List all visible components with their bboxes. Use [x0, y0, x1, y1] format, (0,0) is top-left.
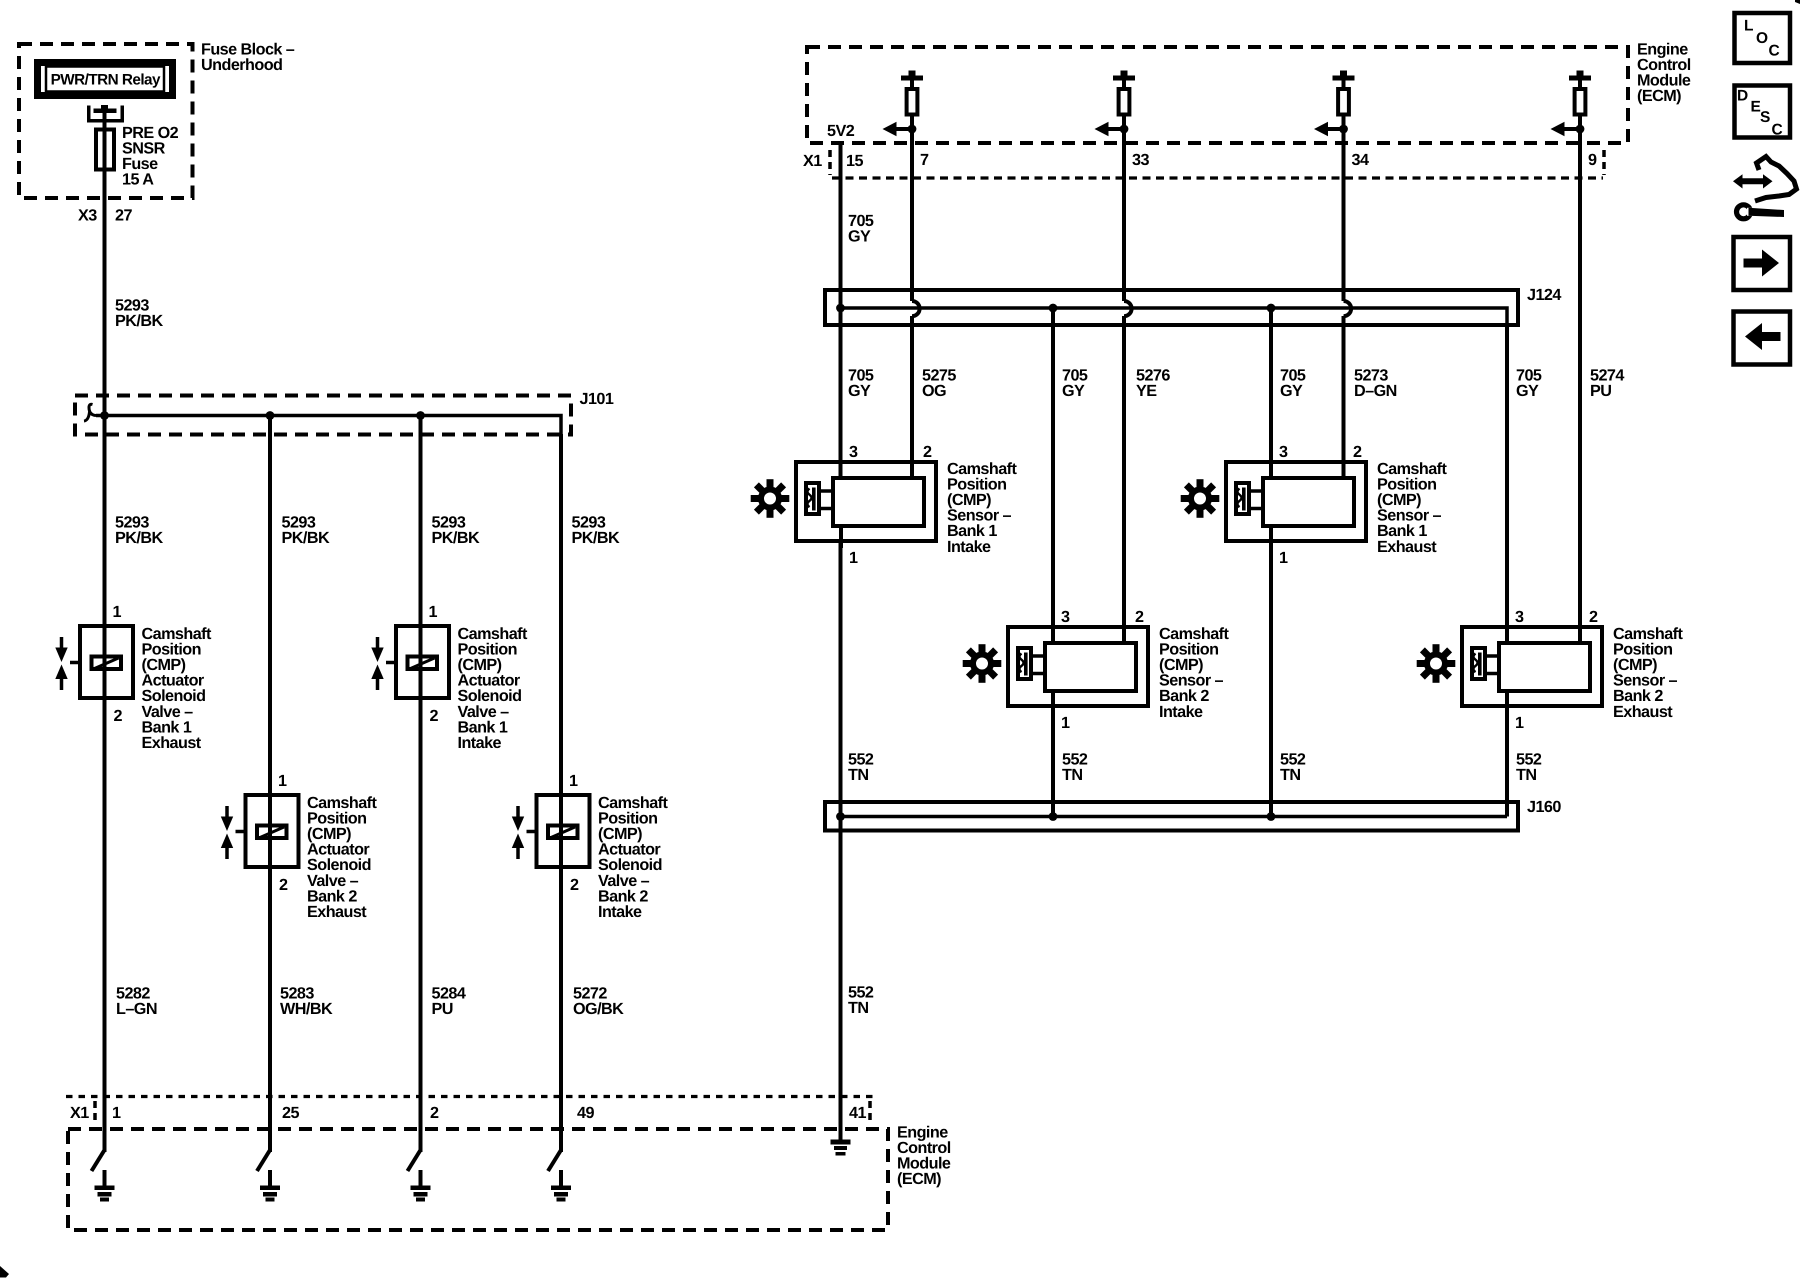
- valve CMP Actuator Solenoid Valve - Bank 2 Intake: coil diagonal: [551, 827, 575, 838]
- svg-text:CamshaftPosition(CMP)Sensor –B: CamshaftPosition(CMP)Sensor –Bank 2Intak…: [1159, 625, 1230, 721]
- wire 5275 OG to sensor B1I pin 2: [910, 316, 914, 480]
- icon: right arrow box: [1734, 237, 1791, 290]
- svg-text:5V2: 5V2: [827, 122, 855, 140]
- wire 5293 PK/BK to valve B2 intake: [559, 434, 563, 799]
- pull-up resistor to 5V2 (sensor B2 exhaust signal): [1577, 71, 1584, 76]
- svg-text:Fuse Block –Underhood: Fuse Block –Underhood: [201, 40, 295, 74]
- svg-text:1: 1: [278, 772, 287, 790]
- svg-text:5284PU: 5284PU: [432, 984, 466, 1018]
- sensor CMP Sensor Bank 2 Exhaust: inner element box: [1499, 643, 1590, 691]
- svg-text:O: O: [1756, 30, 1768, 47]
- sensor CMP Sensor Bank 1 Exhaust: reluctor gear icon: [1181, 479, 1220, 518]
- svg-text:552TN: 552TN: [1280, 750, 1306, 784]
- wire 5276 YE pin 33, hop over J124: [1122, 145, 1126, 301]
- svg-text:CamshaftPosition(CMP)Sensor –B: CamshaftPosition(CMP)Sensor –Bank 2Exhau…: [1613, 625, 1684, 721]
- svg-text:PRE O2SNSRFuse15 A: PRE O2SNSRFuse15 A: [122, 124, 179, 189]
- svg-text:2: 2: [1589, 608, 1598, 626]
- svg-text:41: 41: [849, 1104, 866, 1122]
- svg-text:2: 2: [114, 707, 123, 725]
- sensor CMP Sensor Bank 1 Intake: hall element zigzag: [807, 489, 811, 508]
- sensor CMP Sensor Bank 1 Intake: hall element small box: [806, 483, 819, 514]
- valve CMP Actuator Solenoid Valve - Bank 2 Intake: wire through box: [559, 787, 563, 875]
- wire 5272 OG/BK valve B2I to ECM pin 49: [559, 869, 563, 1152]
- ground at ECM pin 1: [92, 1150, 105, 1171]
- wire 705 GY: pin 15 to J124: [839, 145, 843, 480]
- svg-text:D: D: [1737, 88, 1748, 105]
- svg-text:2: 2: [430, 1104, 439, 1122]
- valve CMP Actuator Solenoid Valve - Bank 1 Intake: coil diagonal: [411, 658, 435, 669]
- valve CMP Actuator Solenoid Valve - Bank 2 Exhaust: stub to box: [236, 830, 244, 834]
- wire 5276 YE to sensor B2I pin 2: [1122, 316, 1126, 645]
- relay PWR/TRN: outer thick box: [38, 63, 173, 96]
- top ECM dashed box: [807, 47, 1628, 143]
- svg-text:EngineControlModule(ECM): EngineControlModule(ECM): [897, 1123, 951, 1188]
- svg-text:1: 1: [112, 1104, 121, 1122]
- J124 junction dot (sensor B2 intake 5V): [1049, 304, 1058, 313]
- sensor CMP Sensor Bank 1 Intake: inner element box: [833, 478, 924, 526]
- bottom ECM X1 connector row: upper dotted line: [66, 1095, 875, 1098]
- wire 552 TN sensor B2E to J160: [1505, 700, 1509, 817]
- svg-text:34: 34: [1352, 151, 1369, 169]
- svg-text:CamshaftPosition(CMP)ActuatorS: CamshaftPosition(CMP)ActuatorSolenoidVal…: [307, 794, 378, 921]
- sensor CMP Sensor Bank 1 Intake: reluctor gear icon: [751, 479, 790, 518]
- icon: left arrow box: [1734, 312, 1791, 365]
- svg-text:5274PU: 5274PU: [1590, 366, 1624, 400]
- svg-text:C: C: [1769, 43, 1780, 60]
- svg-text:33: 33: [1132, 151, 1149, 169]
- wire 552 TN sensor B2I to J160: [1051, 707, 1055, 817]
- svg-text:PWR/TRN Relay: PWR/TRN Relay: [51, 72, 161, 89]
- J101 left-end hook: [84, 404, 96, 421]
- svg-text:705GY: 705GY: [848, 366, 874, 400]
- svg-text:1: 1: [113, 603, 122, 621]
- svg-text:25: 25: [282, 1104, 299, 1122]
- sensor CMP Sensor Bank 1 Exhaust: hall element small box: [1236, 483, 1249, 514]
- sensor CMP Sensor Bank 2 Intake: hall element bar: [1024, 653, 1028, 676]
- svg-text:3: 3: [849, 443, 858, 461]
- svg-text:J101: J101: [580, 390, 614, 408]
- wire 705 GY into sensor B1E: [1269, 460, 1273, 480]
- sensor CMP Sensor Bank 1 Exhaust: inner element box: [1263, 478, 1354, 526]
- J160 junction dot (sensor B2I): [1049, 812, 1058, 821]
- wire 705 GY to sensor B2I pin 3: [1051, 308, 1055, 645]
- svg-text:5272OG/BK: 5272OG/BK: [573, 984, 624, 1018]
- svg-text:1: 1: [569, 772, 578, 790]
- svg-text:CamshaftPosition(CMP)Sensor –B: CamshaftPosition(CMP)Sensor –Bank 1Exhau…: [1377, 460, 1448, 556]
- svg-text:49: 49: [577, 1104, 594, 1122]
- sensor CMP Sensor Bank 1 Exhaust: pin 1 wire: [1269, 526, 1273, 548]
- J160 junction dot (to pin 41): [836, 812, 845, 821]
- svg-text:3: 3: [1279, 443, 1288, 461]
- solenoid valve CMP Actuator Solenoid Valve - Bank 1 Intake: outer box: [396, 626, 449, 698]
- wire 705 GY to sensor B2E pin 3: [1505, 325, 1509, 645]
- icon: LOC box: [1735, 13, 1791, 63]
- svg-text:15: 15: [846, 152, 863, 170]
- svg-text:X3: X3: [78, 207, 97, 225]
- relay output terminal symbol: [87, 106, 124, 121]
- CMP sensor CMP Sensor Bank 2 Exhaust: outer box: [1462, 627, 1602, 706]
- svg-text:705GY: 705GY: [1280, 366, 1306, 400]
- ground at ECM pin 41: [839, 832, 843, 1140]
- svg-text:5293PK/BK: 5293PK/BK: [282, 513, 330, 547]
- valve CMP Actuator Solenoid Valve - Bank 2 Intake: coil inner rect: [548, 826, 578, 839]
- svg-text:J124: J124: [1527, 286, 1561, 304]
- wire: relay terminal to fuse: [103, 112, 107, 129]
- sensor CMP Sensor Bank 1 Intake: pin 1 wire: [839, 526, 843, 548]
- page artifact bottom-left: [0, 1266, 9, 1278]
- svg-text:5293PK/BK: 5293PK/BK: [115, 513, 163, 547]
- svg-text:1: 1: [849, 549, 858, 567]
- ground at ECM pin 25: [257, 1150, 270, 1171]
- J101 junction dot (wire 3): [416, 411, 425, 420]
- J124 junction dot (sensor B1 exhaust 5V): [1267, 304, 1276, 313]
- valve CMP Actuator Solenoid Valve - Bank 2 Exhaust: coil diagonal: [260, 827, 284, 838]
- svg-text:552TN: 552TN: [1062, 750, 1088, 784]
- icon: DESC box: [1735, 86, 1791, 138]
- sensor CMP Sensor Bank 1 Intake: hall element bar: [812, 488, 816, 511]
- svg-text:5273D–GN: 5273D–GN: [1354, 366, 1397, 400]
- svg-text:X1: X1: [70, 1104, 89, 1122]
- sensor CMP Sensor Bank 2 Exhaust: stubs: [1487, 654, 1497, 658]
- valve CMP Actuator Solenoid Valve - Bank 1 Exhaust: wire through box: [103, 618, 107, 706]
- svg-text:705GY: 705GY: [1062, 366, 1088, 400]
- sensor CMP Sensor Bank 2 Exhaust: hall element zigzag: [1473, 654, 1477, 673]
- svg-text:1: 1: [1515, 714, 1524, 732]
- CMP sensor CMP Sensor Bank 2 Intake: outer box: [1008, 627, 1148, 706]
- wire 5293 PK/BK: fuse to J101: [103, 129, 107, 630]
- svg-text:3: 3: [1515, 608, 1524, 626]
- J124 junction dot (705 GY feed): [836, 304, 845, 313]
- sensor CMP Sensor Bank 1 Intake: stubs: [821, 489, 831, 493]
- svg-text:552TN: 552TN: [848, 750, 874, 784]
- valve CMP Actuator Solenoid Valve - Bank 1 Exhaust: coil diagonal: [95, 658, 119, 669]
- svg-text:552TN: 552TN: [1516, 750, 1542, 784]
- svg-text:5293PK/BK: 5293PK/BK: [572, 513, 620, 547]
- svg-text:EngineControlModule(ECM): EngineControlModule(ECM): [1637, 40, 1691, 105]
- wire 5284 PU valve B1I to ECM pin 2: [419, 700, 423, 1152]
- svg-text:CamshaftPosition(CMP)Sensor –B: CamshaftPosition(CMP)Sensor –Bank 1Intak…: [947, 460, 1018, 556]
- svg-text:705GY: 705GY: [1516, 366, 1542, 400]
- ground at ECM pin 2: [408, 1150, 421, 1171]
- svg-text:X1: X1: [803, 152, 822, 170]
- solenoid valve CMP Actuator Solenoid Valve - Bank 2 Intake: outer box: [537, 795, 590, 867]
- wire 5282 L-GN valve B1E to ECM pin 1: [103, 700, 107, 1152]
- svg-text:705GY: 705GY: [848, 212, 874, 246]
- pull-up resistor to 5V2 (sensor B1 intake signal): [909, 71, 916, 76]
- wire 5273 D-GN pin 34, hop over J124: [1342, 145, 1346, 301]
- pull-up resistor to 5V2 (sensor B2 intake signal): [1121, 71, 1128, 76]
- sensor CMP Sensor Bank 2 Exhaust: hall element bar: [1478, 653, 1482, 676]
- svg-text:S: S: [1760, 109, 1770, 126]
- svg-text:5276YE: 5276YE: [1136, 366, 1170, 400]
- svg-text:5283WH/BK: 5283WH/BK: [280, 984, 333, 1018]
- wire 5293 PK/BK to valve B1 intake: [419, 416, 423, 631]
- valve CMP Actuator Solenoid Valve - Bank 1 Exhaust: valve arrows symbol: [60, 637, 64, 648]
- J101 junction dot (wire 1): [100, 411, 109, 420]
- svg-text:2: 2: [430, 707, 439, 725]
- pull-up resistor to 5V2 (sensor B1 exhaust signal): [1340, 71, 1347, 76]
- sensor CMP Sensor Bank 1 Exhaust: hall element bar: [1242, 488, 1246, 511]
- icon: harness routing (double arrow, wire, wrench): [1733, 174, 1773, 188]
- wire 705 GY into sensor B1I: [839, 460, 843, 480]
- CMP sensor CMP Sensor Bank 1 Intake: outer box: [796, 462, 936, 541]
- svg-text:CamshaftPosition(CMP)ActuatorS: CamshaftPosition(CMP)ActuatorSolenoidVal…: [142, 625, 213, 752]
- J160 junction dot (sensor B1E): [1267, 812, 1276, 821]
- splice pack J101 dashed box: [75, 396, 571, 435]
- svg-text:2: 2: [923, 443, 932, 461]
- top X1 separator tick (right): [1602, 150, 1606, 175]
- J124 internal bus line with right corner down: [841, 308, 1508, 327]
- sensor CMP Sensor Bank 2 Intake: stubs: [1033, 654, 1043, 658]
- svg-text:5282L–GN: 5282L–GN: [116, 984, 157, 1018]
- page artifact top-right: [1795, 0, 1800, 4]
- valve CMP Actuator Solenoid Valve - Bank 1 Exhaust: stub to box: [70, 661, 78, 665]
- svg-text:3: 3: [1061, 608, 1070, 626]
- sensor CMP Sensor Bank 2 Exhaust: hall element small box: [1472, 648, 1485, 679]
- svg-text:1: 1: [1061, 714, 1070, 732]
- svg-text:1: 1: [1279, 549, 1288, 567]
- top X1 separator tick (left): [828, 150, 832, 175]
- svg-text:2: 2: [279, 876, 288, 894]
- wire 5275 OG into sensor B1I pin 2: [910, 460, 914, 480]
- sensor CMP Sensor Bank 2 Exhaust: pin 1 wire: [1505, 691, 1509, 713]
- sensor CMP Sensor Bank 2 Exhaust: reluctor gear icon: [1417, 644, 1456, 683]
- svg-text:CamshaftPosition(CMP)ActuatorS: CamshaftPosition(CMP)ActuatorSolenoidVal…: [598, 794, 669, 921]
- sensor CMP Sensor Bank 2 Intake: hall element zigzag: [1019, 654, 1023, 673]
- solenoid valve CMP Actuator Solenoid Valve - Bank 1 Exhaust: outer box: [80, 626, 133, 698]
- valve CMP Actuator Solenoid Valve - Bank 2 Exhaust: coil inner rect: [257, 826, 287, 839]
- wire 5274 PU: pin 9 straight down: [1578, 145, 1582, 645]
- valve CMP Actuator Solenoid Valve - Bank 1 Intake: valve arrows symbol: [376, 637, 380, 648]
- J160 internal bus line: [841, 815, 1508, 819]
- fuse PRE O2 SNSR 15A: [96, 130, 114, 170]
- wire 5273 D-GN into sensor B1E pin 2: [1342, 460, 1346, 480]
- valve CMP Actuator Solenoid Valve - Bank 1 Intake: stub to box: [386, 661, 394, 665]
- valve CMP Actuator Solenoid Valve - Bank 1 Exhaust: coil inner rect: [92, 657, 122, 670]
- wire 705 GY to sensor B1E pin 3: [1269, 308, 1273, 480]
- sensor CMP Sensor Bank 2 Intake: inner element box: [1045, 643, 1136, 691]
- wire 5273 D-GN to sensor B1E pin 2: [1342, 316, 1346, 480]
- CMP sensor CMP Sensor Bank 1 Exhaust: outer box: [1226, 462, 1366, 541]
- sensor CMP Sensor Bank 1 Exhaust: stubs: [1251, 489, 1261, 493]
- svg-text:5275OG: 5275OG: [922, 366, 956, 400]
- svg-text:5293PK/BK: 5293PK/BK: [432, 513, 480, 547]
- bottom ECM dashed box: [68, 1129, 888, 1230]
- svg-text:L: L: [1744, 17, 1753, 34]
- svg-text:1: 1: [429, 603, 438, 621]
- valve CMP Actuator Solenoid Valve - Bank 2 Intake: stub to box: [527, 830, 535, 834]
- svg-text:J160: J160: [1527, 798, 1561, 816]
- svg-text:C: C: [1772, 122, 1783, 139]
- J101 internal bus line with right corner down: [96, 416, 561, 437]
- svg-text:2: 2: [1135, 608, 1144, 626]
- svg-text:5293PK/BK: 5293PK/BK: [115, 296, 163, 330]
- fuse block underhood dashed box: [19, 44, 193, 198]
- ground at ECM pin 49: [548, 1150, 561, 1171]
- X1 separator dotted tick (left): [93, 1101, 97, 1124]
- svg-text:7: 7: [920, 151, 929, 169]
- svg-text:CamshaftPosition(CMP)ActuatorS: CamshaftPosition(CMP)ActuatorSolenoidVal…: [458, 625, 529, 752]
- wire 552 TN sensor B1I to J160: [839, 543, 843, 832]
- splice pack J124 box: [825, 290, 1518, 325]
- svg-text:27: 27: [115, 207, 132, 225]
- solenoid valve CMP Actuator Solenoid Valve - Bank 2 Exhaust: outer box: [246, 795, 299, 867]
- sensor CMP Sensor Bank 1 Exhaust: hall element zigzag: [1237, 489, 1241, 508]
- wire 5283 WH/BK valve B2E to ECM pin 25: [268, 869, 272, 1152]
- sensor CMP Sensor Bank 2 Intake: hall element small box: [1018, 648, 1031, 679]
- wire 552 TN sensor B1E to J160: [1269, 543, 1273, 817]
- valve CMP Actuator Solenoid Valve - Bank 1 Intake: coil inner rect: [408, 657, 438, 670]
- top ECM X1 connector row: lower dashed line: [832, 176, 1603, 179]
- splice pack J160 box: [825, 802, 1518, 831]
- J101 junction dot (wire 2): [266, 411, 275, 420]
- valve CMP Actuator Solenoid Valve - Bank 2 Intake: valve arrows symbol: [516, 806, 520, 817]
- wire 5293 PK/BK to valve B2 exhaust: [268, 416, 272, 800]
- svg-text:2: 2: [1353, 443, 1362, 461]
- svg-text:552TN: 552TN: [848, 983, 874, 1017]
- valve CMP Actuator Solenoid Valve - Bank 2 Exhaust: valve arrows symbol: [225, 806, 229, 817]
- svg-text:9: 9: [1588, 151, 1597, 169]
- sensor CMP Sensor Bank 2 Intake: pin 1 wire: [1051, 691, 1055, 713]
- relay PWR/TRN: inner box: [46, 67, 164, 92]
- wire 5275 OG pin 7, hop over J124: [910, 145, 914, 301]
- sensor CMP Sensor Bank 2 Intake: reluctor gear icon: [963, 644, 1002, 683]
- X1 separator dotted tick (right): [868, 1101, 872, 1124]
- valve CMP Actuator Solenoid Valve - Bank 1 Intake: wire through box: [419, 618, 423, 706]
- svg-text:E: E: [1751, 98, 1761, 115]
- valve CMP Actuator Solenoid Valve - Bank 2 Exhaust: wire through box: [268, 787, 272, 875]
- svg-text:2: 2: [570, 876, 579, 894]
